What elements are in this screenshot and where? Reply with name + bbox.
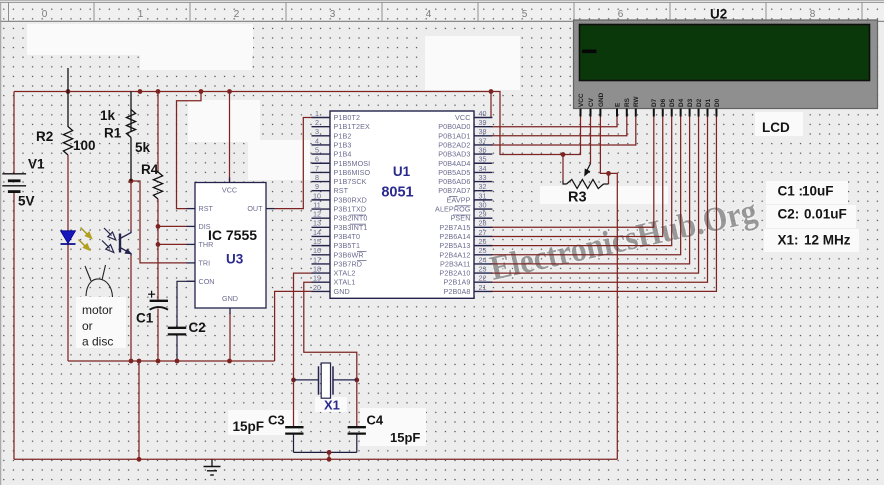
svg-text:IC 7555: IC 7555 [208, 227, 257, 243]
svg-text:XTAL1: XTAL1 [334, 278, 356, 287]
wire D3 net [491, 116, 689, 264]
svg-text:V1: V1 [28, 157, 45, 172]
svg-text:1k: 1k [100, 108, 116, 123]
junction node C1/gnd [156, 359, 161, 364]
wire C3-C4 bus [294, 451, 357, 453]
wire C2 bottom [176, 335, 178, 361]
svg-text:27: 27 [479, 228, 487, 237]
svg-text:8: 8 [315, 173, 319, 182]
svg-text:2: 2 [315, 118, 319, 127]
svg-text:CV: CV [588, 97, 595, 107]
svg-text:C2:: C2: [778, 207, 800, 222]
svg-text:12: 12 [313, 210, 321, 219]
white patch mid-left [188, 100, 260, 142]
wire GRD node to ground rail [609, 173, 618, 459]
battery V1 [2, 174, 26, 193]
svg-text:12 MHz: 12 MHz [804, 233, 851, 248]
junction node U3 GND/gnd [227, 359, 232, 364]
svg-text:10uF: 10uF [802, 184, 834, 199]
svg-text:P0B1AD1: P0B1AD1 [438, 131, 470, 140]
svg-text:19: 19 [313, 274, 321, 283]
wire Q1 emitter down [130, 256, 132, 362]
svg-text:P1B3: P1B3 [334, 140, 352, 149]
svg-text:P3B0RXD: P3B0RXD [334, 195, 367, 204]
svg-text:13: 13 [313, 219, 321, 228]
svg-text:P3B1TXD: P3B1TXD [334, 205, 367, 214]
svg-text:5: 5 [522, 9, 528, 20]
LED light arrows [79, 228, 93, 252]
svg-text:LCD: LCD [762, 120, 790, 135]
ruler [0, 1, 884, 22]
svg-text:6: 6 [618, 9, 624, 20]
wire battery negative to ground rail [13, 192, 15, 460]
svg-text:P3B4T0: P3B4T0 [334, 232, 361, 241]
svg-text:RST: RST [199, 204, 214, 213]
junction node C2/gnd [175, 359, 180, 364]
wire Q1 collector up [130, 181, 132, 230]
wire THR node to C1 [157, 244, 159, 300]
svg-text:motor: motor [82, 303, 113, 317]
crystal X1 [294, 363, 357, 398]
junction node U3 VCC/+5V [227, 89, 232, 94]
wire C1 bottom [157, 309, 159, 362]
svg-text:C1: C1 [136, 311, 154, 326]
wire LCD GRD net [600, 116, 608, 173]
wire R3 left lead [562, 155, 564, 181]
svg-text:R2: R2 [36, 129, 53, 144]
white patch C4 15pF [360, 408, 426, 446]
wire C3 bottom [293, 434, 295, 453]
note C2 value [778, 207, 847, 222]
white patch LCD label [755, 112, 803, 136]
svg-text:D1: D1 [705, 98, 712, 107]
wire DIS node to THR node [157, 226, 159, 244]
svg-text:29: 29 [479, 210, 487, 219]
white patch motor label [76, 297, 126, 348]
svg-text:20: 20 [313, 283, 321, 292]
wire XTAL2 net [294, 273, 312, 380]
white patch right of 8051 [425, 36, 520, 90]
svg-text:4: 4 [315, 136, 319, 145]
svg-text:32: 32 [479, 182, 487, 191]
svg-text:1: 1 [138, 9, 144, 20]
svg-text:or: or [82, 319, 93, 333]
svg-text:3: 3 [330, 9, 336, 20]
capacitor C1 [148, 291, 168, 310]
resistor R4 [153, 172, 162, 199]
capacitor C4 [348, 427, 366, 433]
svg-text:36: 36 [479, 146, 487, 155]
wire THR [158, 243, 187, 245]
motor sketch [85, 265, 113, 297]
wire U3 GND [229, 313, 231, 361]
white patch C1 note [766, 181, 848, 204]
wire D4 net [491, 116, 680, 255]
junction node C3C4 bus [327, 450, 332, 455]
white patch X1 note [764, 229, 859, 252]
svg-text:OUT: OUT [247, 204, 263, 213]
wire D1 net [491, 116, 707, 282]
svg-text:39: 39 [479, 118, 487, 127]
svg-text:X1: X1 [324, 398, 340, 413]
svg-text:R4: R4 [141, 162, 159, 177]
svg-text:P0B6AD6: P0B6AD6 [438, 177, 470, 186]
svg-text:5V: 5V [18, 194, 35, 209]
wire D6 net [491, 116, 662, 236]
svg-text:U2: U2 [710, 7, 727, 22]
wire RST net [177, 92, 202, 209]
svg-text:P0B3AD3: P0B3AD3 [438, 150, 470, 159]
sheet left border [0, 2, 2, 485]
svg-text:C2: C2 [189, 320, 206, 335]
svg-text:11: 11 [313, 200, 320, 209]
junction node Q1 emitter/gnd [129, 359, 134, 364]
svg-text:GND: GND [222, 294, 238, 303]
wire sub-rail to ground rail riser [138, 361, 140, 459]
svg-text:D0: D0 [714, 98, 721, 107]
svg-text:D4: D4 [678, 98, 685, 107]
svg-text:25: 25 [479, 246, 487, 255]
svg-text:GND: GND [334, 287, 350, 296]
junction node THR [156, 242, 161, 247]
wire battery positive lead [13, 92, 15, 174]
svg-text:CON: CON [199, 277, 215, 286]
svg-text:23: 23 [479, 264, 487, 273]
white patch mid-left2 [248, 140, 310, 180]
svg-text:21: 21 [479, 283, 487, 292]
svg-text:P0B0AD0: P0B0AD0 [438, 122, 470, 131]
LED D1 [61, 231, 76, 244]
wire 8051 GND net [275, 291, 312, 361]
junction node A (R1/Q1/TRI) [129, 179, 134, 184]
svg-text:E: E [614, 102, 621, 107]
wire CON to C2 [177, 281, 195, 327]
svg-text:P0B5AD5: P0B5AD5 [438, 168, 470, 177]
wire ground sub-rail [68, 360, 275, 362]
wire D7 net [491, 116, 653, 227]
svg-text:P2B4A12: P2B4A12 [439, 250, 470, 259]
note C1 value [778, 184, 834, 199]
wire E net [491, 116, 617, 126]
wire bus tap to ground rail [328, 452, 330, 459]
svg-text:100: 100 [73, 138, 96, 153]
wire R3 right up [608, 173, 610, 184]
junction node R1/+5V [138, 89, 143, 94]
junction node XTAL1/X1 [354, 378, 359, 383]
wire XTAL1 net [304, 282, 357, 380]
svg-text:a disc: a disc [82, 335, 113, 349]
svg-text:GND: GND [598, 92, 605, 107]
svg-text:C4: C4 [367, 413, 384, 428]
junction node XTAL2/X1 [291, 378, 296, 383]
wire C4 top lead [356, 380, 358, 427]
capacitor C3 [285, 427, 303, 433]
junction node riser/gnd [137, 359, 142, 364]
svg-text:XTAL2: XTAL2 [334, 269, 356, 278]
white patch R3 band [540, 186, 668, 204]
wire C3 top lead [293, 380, 295, 427]
svg-text:2: 2 [234, 9, 240, 20]
wire RW net [491, 116, 635, 145]
svg-text:P2B0A8: P2B0A8 [444, 287, 471, 296]
svg-text:TRI: TRI [199, 258, 211, 267]
svg-text:34: 34 [479, 164, 487, 173]
svg-text:D3: D3 [687, 98, 694, 107]
wire pin40 to +5V rail [490, 92, 492, 118]
white patch 15pF C3 [228, 410, 298, 435]
wire +5V top rail [14, 91, 491, 93]
phototransistor Q1 [102, 228, 132, 256]
junction node R3/GRD [606, 171, 611, 176]
svg-text:P2B3A11: P2B3A11 [440, 259, 471, 268]
svg-text:10: 10 [313, 191, 321, 200]
note X1 value [778, 233, 851, 248]
svg-text:RS: RS [624, 97, 631, 107]
svg-text:38: 38 [479, 127, 487, 136]
svg-text:P2B6A14: P2B6A14 [439, 232, 470, 241]
junction node RST/+5V [199, 89, 204, 94]
svg-text:8051: 8051 [381, 185, 413, 201]
microcontroller U1 (8051) box and pins [312, 109, 493, 298]
svg-text:24: 24 [479, 255, 487, 264]
svg-text:P1B0T2: P1B0T2 [334, 113, 361, 122]
wire LED cathode down [67, 244, 69, 361]
wire R4 bottom to DIS node [157, 199, 159, 226]
LCD module U2 [574, 20, 878, 117]
wire OUT to pin1 [275, 118, 312, 209]
svg-text:P2B7A15: P2B7A15 [439, 223, 470, 232]
svg-text:P2B1A9: P2B1A9 [444, 278, 471, 287]
svg-text:D5: D5 [669, 98, 676, 107]
svg-text:14: 14 [313, 228, 321, 237]
svg-text:35: 35 [479, 155, 487, 164]
junction node bus/bottom rail [327, 457, 332, 462]
svg-text:VCC: VCC [222, 186, 237, 195]
wire bottom ground rail [14, 458, 617, 460]
svg-text:7: 7 [315, 164, 319, 173]
junction node riser/bottom rail [137, 457, 142, 462]
svg-text:C3: C3 [268, 413, 285, 428]
svg-text:P0B2AD2: P0B2AD2 [438, 140, 470, 149]
white patch X1 label [315, 397, 347, 412]
wire D5 net [491, 116, 671, 245]
svg-text:9: 9 [315, 182, 319, 191]
junction node R4/+5V [156, 89, 161, 94]
svg-text:37: 37 [479, 136, 487, 145]
wire RS net [491, 116, 626, 136]
svg-text:RW: RW [633, 96, 640, 107]
svg-text:28: 28 [479, 219, 487, 228]
junction node pin40/+5V [489, 89, 494, 94]
junction node R2/+5V [66, 89, 71, 94]
svg-text:VCC: VCC [455, 113, 470, 122]
svg-text:VCC: VCC [578, 93, 585, 107]
svg-text:0.01uF: 0.01uF [804, 207, 847, 222]
svg-text:26: 26 [479, 237, 487, 246]
svg-text:R3: R3 [568, 190, 587, 206]
wire D0 net [491, 116, 716, 291]
svg-text:15: 15 [313, 237, 321, 246]
junction node DIS [156, 224, 161, 229]
op-amp/timer U3 (IC 7555) box [187, 178, 275, 315]
svg-text:16: 16 [313, 246, 321, 255]
svg-text:D6: D6 [660, 98, 667, 107]
svg-text:30: 30 [479, 200, 487, 209]
svg-text:8: 8 [810, 9, 816, 20]
svg-text:D2: D2 [696, 98, 703, 107]
svg-text:22: 22 [479, 274, 487, 283]
svg-text:P1B6MISO: P1B6MISO [334, 168, 371, 177]
wire VCC jog to LCD [491, 92, 581, 155]
U1 pin-name overlines [350, 197, 471, 261]
svg-text:P1B4: P1B4 [334, 150, 352, 159]
svg-text:X1:: X1: [778, 233, 799, 248]
wire R4 top [157, 92, 159, 173]
svg-text:RST: RST [334, 186, 349, 195]
white patch top-left band [27, 24, 253, 70]
capacitor C2 [168, 328, 186, 335]
svg-text:P0B7AD7: P0B7AD7 [438, 186, 470, 195]
svg-text:P0B4AD4: P0B4AD4 [438, 159, 470, 168]
svg-text:18: 18 [313, 264, 321, 273]
svg-text:3: 3 [315, 127, 319, 136]
wire LCD CV wire [590, 116, 592, 163]
wire DIS [158, 225, 187, 227]
svg-text:0: 0 [42, 9, 48, 20]
ground [204, 459, 221, 475]
wire R2 to LED [67, 155, 69, 231]
svg-text:17: 17 [313, 255, 321, 264]
wire U3 VCC [229, 92, 231, 183]
wire C4 bottom [356, 434, 358, 453]
wire D2 net [491, 116, 698, 273]
junction node R3/VCC [561, 152, 566, 157]
resistor R1 [126, 92, 135, 182]
svg-text:4: 4 [426, 9, 432, 20]
svg-text:U3: U3 [226, 252, 244, 267]
svg-text:1: 1 [315, 109, 319, 118]
svg-text:5: 5 [315, 146, 319, 155]
potentiometer R3 [563, 164, 609, 189]
svg-text:P1B5MOSI: P1B5MOSI [334, 159, 371, 168]
svg-text:P3B5T1: P3B5T1 [334, 241, 361, 250]
svg-text:40: 40 [479, 109, 487, 118]
svg-text:R1: R1 [104, 126, 122, 141]
svg-text:P1B7SCK: P1B7SCK [334, 177, 367, 186]
svg-text:15pF: 15pF [233, 419, 265, 434]
svg-text:P2B5A13: P2B5A13 [439, 241, 470, 250]
svg-text:15pF: 15pF [390, 430, 420, 445]
svg-text:31: 31 [479, 191, 487, 200]
svg-text:5k: 5k [135, 140, 151, 155]
svg-text:6: 6 [315, 155, 319, 164]
svg-text:P1B1T2EX: P1B1T2EX [334, 122, 370, 131]
resistor R2 [63, 68, 72, 155]
svg-text:C1 :: C1 : [778, 184, 804, 199]
wire node A to TRI [131, 181, 187, 263]
white patch C2 note [766, 205, 856, 228]
svg-text:D7: D7 [651, 98, 658, 107]
svg-text:P2B2A10: P2B2A10 [439, 269, 470, 278]
svg-text:U1: U1 [393, 164, 411, 179]
svg-text:P1B2: P1B2 [334, 131, 352, 140]
svg-text:33: 33 [479, 173, 487, 182]
